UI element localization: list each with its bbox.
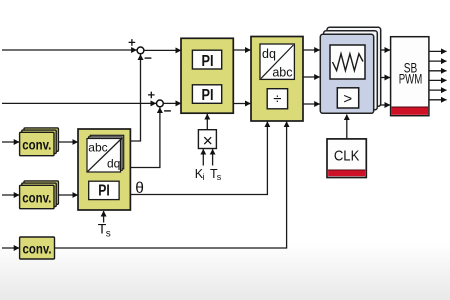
- block CLK: [327, 139, 366, 178]
- wire dq/abc to comparator row 3: [303, 103, 320, 105]
- label Ki Ts: [195, 167, 222, 182]
- wire theta output to divider (elbow up): [130, 122, 267, 195]
- label theta: [135, 180, 144, 197]
- wire PWM output 1: [429, 50, 447, 52]
- svg-text:÷: ÷: [273, 91, 281, 108]
- wire comparator to SB PWM row 2: [381, 77, 390, 79]
- wire PWM output 4: [429, 79, 447, 81]
- block conv2 (stacked): [20, 181, 59, 209]
- wire input into conv2: [2, 194, 19, 196]
- svg-text:>: >: [343, 90, 352, 107]
- svg-text:dq: dq: [262, 47, 276, 61]
- svg-text:abc: abc: [88, 140, 107, 154]
- block SB PWM: [391, 37, 429, 116]
- wire PWM output 5: [429, 89, 447, 91]
- wire S2 to PI block: [163, 102, 181, 104]
- wire S1 to PI block: [144, 49, 181, 51]
- block PWM comparator (blue stacked): [320, 27, 380, 113]
- svg-text:dq: dq: [107, 157, 120, 171]
- block abc to dq transform (yellow container): [78, 129, 130, 210]
- wire multiplier to PI block: [206, 114, 208, 130]
- divider box: [267, 89, 287, 109]
- svg-text:abc: abc: [272, 66, 292, 80]
- comparator box: [337, 88, 358, 108]
- wire comparator to SB PWM row 1: [381, 49, 390, 51]
- wire CLK to comparator block: [346, 115, 348, 139]
- PI controller box 1: [192, 50, 221, 70]
- wire input d-reference into summing junction S1: [2, 49, 137, 51]
- wire PWM output 2: [429, 60, 447, 62]
- wire input into conv1: [2, 141, 19, 143]
- carrier waveform box: [330, 45, 365, 79]
- block conv3: [20, 237, 55, 259]
- svg-text:conv.: conv.: [22, 190, 51, 206]
- wire conv1 to abc-dq block: [58, 141, 77, 143]
- dq/abc transform inner box: [260, 44, 294, 80]
- multiplier block x: [198, 130, 216, 151]
- wire PI to dq/abc row 1: [233, 49, 250, 51]
- svg-text:conv.: conv.: [22, 137, 51, 153]
- wire input q-reference into summing junction S2: [2, 102, 156, 104]
- summing junction S1: [129, 39, 152, 58]
- block conv1 (stacked): [20, 128, 59, 156]
- svg-text:PI: PI: [202, 87, 214, 104]
- block PI controllers container: [181, 38, 233, 113]
- block dq to abc transform (yellow container): [251, 37, 303, 122]
- wire Ts into multiplier: [212, 149, 214, 165]
- svg-text:CLK: CLK: [334, 148, 360, 165]
- wire PWM output 3: [429, 70, 447, 72]
- wire feedback q (abc/dq out to S2): [130, 108, 160, 168]
- svg-text:PWM: PWM: [399, 71, 423, 86]
- wire PWM output 6: [429, 99, 447, 101]
- wire dq/abc to comparator row 2: [303, 76, 320, 78]
- PI controller box 2: [192, 85, 221, 104]
- svg-text:θ: θ: [135, 180, 144, 197]
- wire dq/abc to comparator row 1: [303, 49, 320, 51]
- svg-text:×: ×: [203, 130, 213, 150]
- summing junction S2: [148, 92, 171, 111]
- wire PI to dq/abc row 2: [233, 103, 250, 105]
- svg-text:conv.: conv.: [23, 241, 52, 257]
- svg-text:PI: PI: [98, 183, 110, 200]
- svg-text:i: i: [203, 172, 205, 182]
- wire conv2 to abc-dq block: [58, 194, 77, 196]
- svg-text:PI: PI: [202, 53, 214, 70]
- svg-text:s: s: [106, 229, 111, 240]
- abc/dq transform inner stacked box: [87, 135, 124, 172]
- arrow Ts into abc/dq block: [103, 211, 105, 223]
- wire conv3 to divider input (elbow up): [55, 122, 287, 248]
- wire input into conv3: [2, 247, 19, 249]
- label Ts: [98, 221, 111, 240]
- PI box inside abc/dq block: [89, 181, 119, 200]
- wire Ki into multiplier: [202, 149, 204, 165]
- wire feedback d (abc/dq out to S1): [130, 55, 140, 142]
- wire comparator to SB PWM row 3: [381, 104, 390, 106]
- svg-text:s: s: [217, 172, 222, 182]
